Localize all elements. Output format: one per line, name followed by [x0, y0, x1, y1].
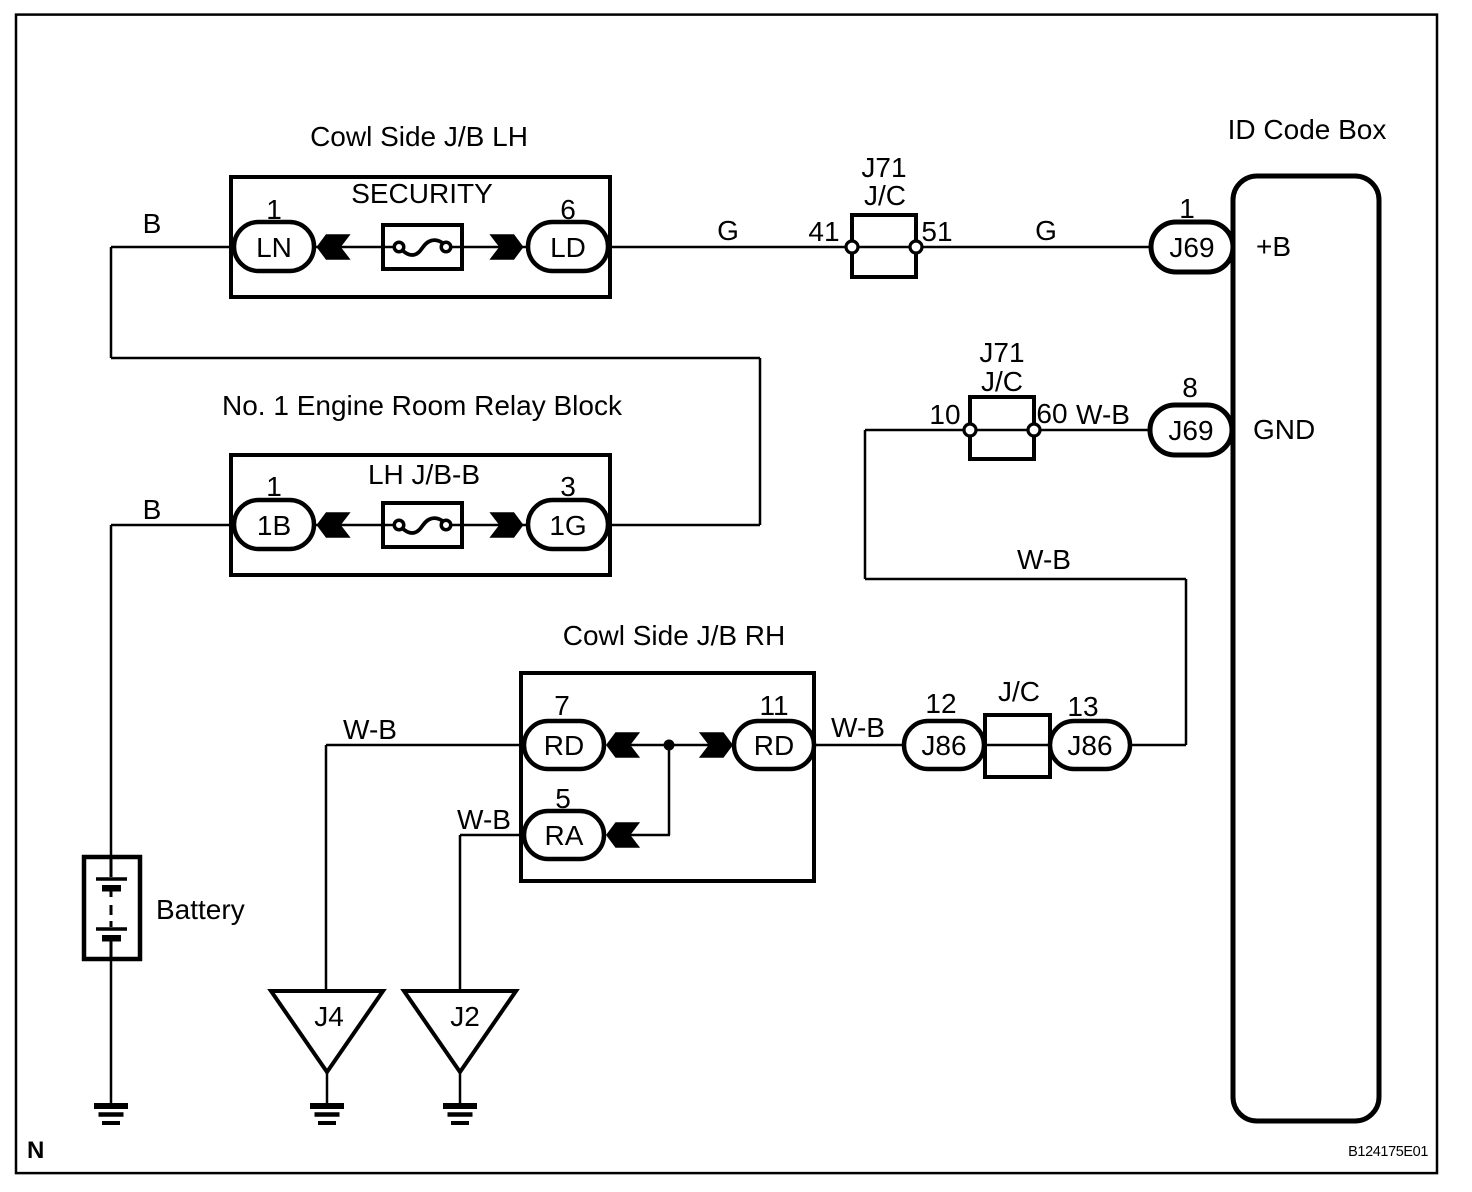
- wire vertical x460 down to J2: [459, 835, 462, 991]
- fuse SECURITY: [383, 225, 462, 269]
- arrow right RD11: [699, 732, 733, 757]
- wire J4 apex to ground: [326, 1072, 329, 1103]
- wire W-B to RA: [460, 834, 524, 837]
- svg-text:Cowl Side J/B RH: Cowl Side J/B RH: [563, 620, 786, 651]
- svg-text:J69: J69: [1169, 232, 1214, 263]
- svg-text:10: 10: [929, 399, 960, 430]
- fuse LH J/B-B: [383, 503, 462, 547]
- wire through block1 fuse row: [314, 246, 528, 249]
- wire block3 internal junction: [628, 744, 710, 747]
- wire J2 apex to ground: [459, 1072, 462, 1103]
- svg-text:Cowl Side J/B LH: Cowl Side J/B LH: [310, 121, 528, 152]
- ground J2: [443, 1106, 477, 1123]
- circle pin51: [910, 241, 922, 253]
- svg-text:6: 6: [560, 194, 576, 225]
- wire B to 1B: [111, 524, 234, 527]
- svg-text:W-B: W-B: [1017, 544, 1071, 575]
- wire through J86 J/C box: [984, 744, 1051, 747]
- wire horizontal y579 W-B: [865, 578, 1186, 581]
- svg-text:W-B: W-B: [1076, 399, 1130, 430]
- terminal J69 pin8: [1150, 405, 1232, 455]
- wire 1G to corner: [608, 524, 760, 527]
- svg-text:1G: 1G: [549, 510, 586, 541]
- svg-text:11: 11: [759, 690, 788, 721]
- svg-text:41: 41: [808, 216, 839, 247]
- arrow left RD7: [606, 732, 640, 757]
- arrow left RA: [606, 822, 640, 847]
- svg-text:J/C: J/C: [864, 180, 906, 211]
- wire LD to J69 pin1 (G): [608, 246, 1152, 249]
- terminal J86 pin12: [904, 721, 984, 769]
- svg-text:51: 51: [921, 216, 952, 247]
- svg-text:J/C: J/C: [981, 366, 1023, 397]
- svg-text:No. 1 Engine Room Relay Block: No. 1 Engine Room Relay Block: [222, 390, 623, 421]
- wire through block2 fuse row: [314, 524, 528, 527]
- svg-text:1: 1: [1179, 193, 1195, 224]
- svg-text:W-B: W-B: [831, 712, 885, 743]
- svg-text:RD: RD: [544, 730, 584, 761]
- svg-text:J71: J71: [861, 152, 906, 183]
- svg-text:B: B: [143, 494, 162, 525]
- block Cowl Side J/B RH: [521, 673, 814, 881]
- svg-text:1: 1: [266, 194, 282, 225]
- J/C J86 box: [985, 715, 1050, 777]
- wire vertical x760: [759, 358, 762, 525]
- arrow right block1: [489, 234, 523, 259]
- svg-text:7: 7: [554, 690, 570, 721]
- terminal LD pin6: [528, 222, 608, 271]
- wire vertical x1185: [1185, 579, 1188, 745]
- ID Code Box: [1233, 176, 1379, 1121]
- circle pin60: [1028, 424, 1040, 436]
- wire RD11 to J86-12 (W-B): [814, 744, 904, 747]
- svg-text:LD: LD: [550, 232, 586, 263]
- wire horizontal y358: [111, 357, 760, 360]
- wire B from left rail to LN: [111, 246, 234, 249]
- svg-text:13: 13: [1067, 691, 1098, 722]
- terminal RD pin11: [734, 721, 814, 769]
- wire block3 to RA arrow: [628, 834, 670, 837]
- ground J4: [310, 1106, 344, 1123]
- wire left rail top vertical: [110, 247, 113, 358]
- terminal 1B pin1: [234, 500, 314, 549]
- svg-text:LH J/B-B: LH J/B-B: [368, 459, 480, 490]
- svg-text:+B: +B: [1256, 231, 1291, 262]
- svg-text:1: 1: [266, 471, 282, 502]
- svg-text:SECURITY: SECURITY: [351, 178, 493, 209]
- arrow left block1: [317, 234, 351, 259]
- circle pin10: [964, 424, 976, 436]
- svg-text:GND: GND: [1253, 414, 1315, 445]
- svg-text:8: 8: [1182, 372, 1198, 403]
- wire block3 vertical from dot: [668, 745, 671, 835]
- terminal J86 pin13: [1050, 721, 1130, 769]
- svg-text:12: 12: [925, 688, 956, 719]
- battery: [84, 857, 140, 959]
- svg-text:B: B: [143, 208, 162, 239]
- svg-text:3: 3: [560, 471, 576, 502]
- terminal RD pin7: [524, 721, 604, 769]
- arrow left block2: [317, 512, 351, 537]
- svg-text:J86: J86: [921, 730, 966, 761]
- wire J86-13 to vertical: [1130, 744, 1186, 747]
- svg-text:1B: 1B: [257, 510, 291, 541]
- svg-text:G: G: [1035, 215, 1057, 246]
- svg-text:LN: LN: [256, 232, 292, 263]
- svg-text:J/C: J/C: [998, 676, 1040, 707]
- wire vertical x865: [864, 430, 867, 579]
- svg-text:RD: RD: [754, 730, 794, 761]
- svg-text:ID Code Box: ID Code Box: [1228, 114, 1387, 145]
- terminal J69 pin1: [1151, 222, 1233, 272]
- svg-text:J71: J71: [979, 337, 1024, 368]
- svg-text:5: 5: [555, 783, 571, 814]
- wire left rail to battery: [110, 525, 113, 858]
- junction dot: [664, 740, 675, 751]
- triangle J4: [271, 991, 383, 1072]
- wire GND loop: J69-8 left through J/C to corner: [865, 429, 1152, 432]
- svg-text:Battery: Battery: [156, 894, 245, 925]
- J/C J71 top box: [852, 215, 916, 277]
- svg-text:RA: RA: [545, 820, 584, 851]
- svg-text:W-B: W-B: [343, 714, 397, 745]
- svg-text:60: 60: [1036, 398, 1067, 429]
- wire battery to ground: [110, 958, 113, 1103]
- block No.1 Engine Room Relay Block: [231, 455, 610, 575]
- svg-text:J69: J69: [1168, 415, 1213, 446]
- ground battery: [94, 1106, 128, 1123]
- triangle J2: [404, 991, 516, 1072]
- svg-text:J86: J86: [1067, 730, 1112, 761]
- svg-text:J2: J2: [450, 1001, 480, 1032]
- terminal LN pin1: [234, 222, 314, 271]
- J/C J71 mid box: [970, 397, 1034, 459]
- wire vertical x326 down to J4: [325, 745, 328, 991]
- svg-text:B124175E01: B124175E01: [1348, 1144, 1428, 1160]
- block Cowl Side J/B LH: [231, 177, 610, 297]
- svg-text:N: N: [27, 1137, 44, 1164]
- svg-text:W-B: W-B: [457, 804, 511, 835]
- circle pin41: [846, 241, 858, 253]
- wire W-B to RD7: [326, 744, 524, 747]
- arrow right block2: [489, 512, 523, 537]
- terminal 1G pin3: [528, 500, 608, 549]
- terminal RA pin5: [524, 811, 604, 859]
- svg-text:G: G: [717, 215, 739, 246]
- svg-text:J4: J4: [314, 1001, 344, 1032]
